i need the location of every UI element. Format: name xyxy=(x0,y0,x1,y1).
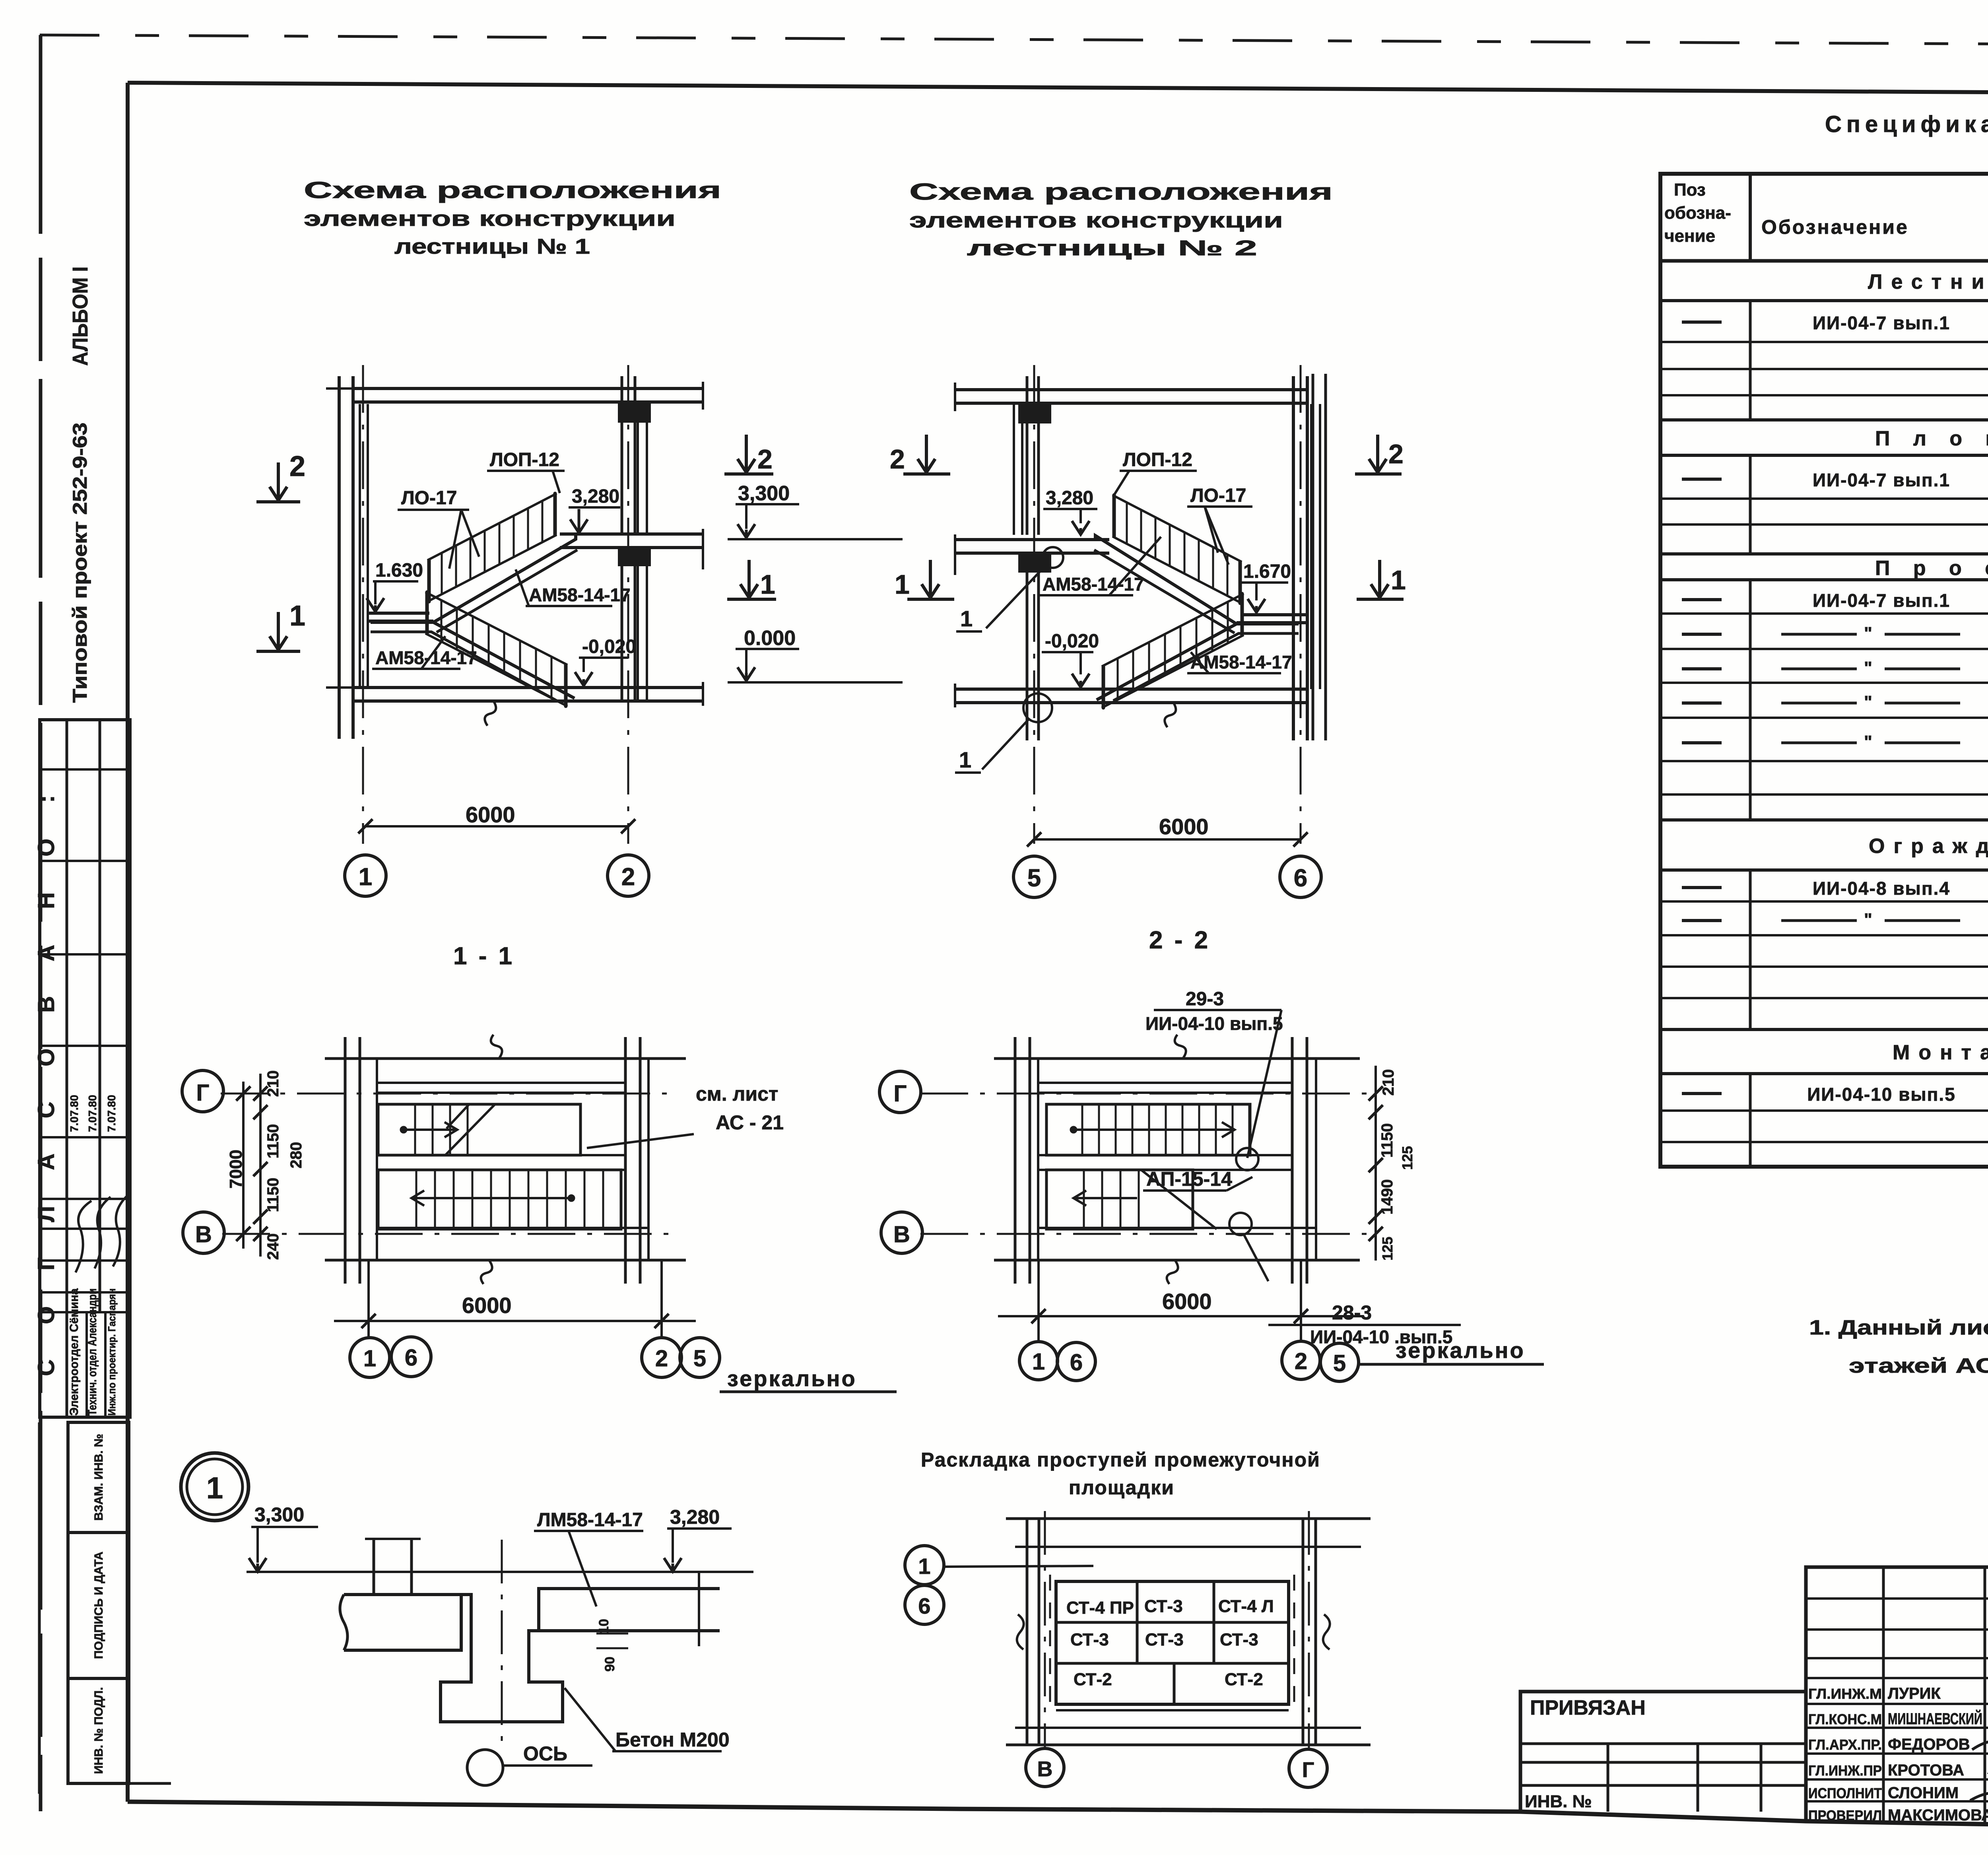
svg-text:Ограждения лестниц: Ограждения лестниц xyxy=(1869,835,1988,858)
axis circle 2 plan1 xyxy=(642,1338,681,1377)
section 2-2 bottom floor slab xyxy=(955,688,1307,691)
svg-text:90: 90 xyxy=(602,1657,617,1672)
axis circle V plan2 xyxy=(881,1212,922,1253)
svg-text:В: В xyxy=(893,1222,910,1247)
svg-text:обозна-: обозна- xyxy=(1664,203,1731,223)
svg-text:1: 1 xyxy=(1391,565,1406,595)
plan 1 axis G line xyxy=(221,1093,676,1095)
svg-text:7.07.80: 7.07.80 xyxy=(86,1095,99,1132)
axis circle G plan2 xyxy=(879,1071,921,1113)
spec band montazhnye detali xyxy=(1660,1028,1988,1031)
section 1-1 top beam xyxy=(619,403,650,422)
svg-text:ИИ-04-10 вып.5: ИИ-04-10 вып.5 xyxy=(1145,1013,1283,1034)
plan 2 right dim chain xyxy=(1375,1066,1377,1261)
svg-text:Спецификация элементов: Спецификация элементов xyxy=(1825,111,1988,137)
svg-text:КРОТОВА: КРОТОВА xyxy=(1888,1762,1964,1779)
svg-text:чение: чение xyxy=(1664,226,1715,246)
plan 1 outline top xyxy=(325,1057,686,1060)
svg-text:АС - 21: АС - 21 xyxy=(716,1111,784,1134)
svg-text:СТ-3: СТ-3 xyxy=(1144,1597,1183,1616)
sidebar box VZAM INV No xyxy=(68,1422,129,1533)
plan 2 right wall xyxy=(1291,1037,1294,1284)
plan 1 lower flight xyxy=(378,1170,621,1229)
svg-text:7.07.80: 7.07.80 xyxy=(68,1095,80,1132)
svg-text:АМ58-14-17: АМ58-14-17 xyxy=(375,647,477,668)
plan 2 outline bottom xyxy=(994,1259,1360,1262)
svg-text:ЛОП-12: ЛОП-12 xyxy=(1123,449,1192,470)
spec band lestnichnye marshi xyxy=(1660,259,1988,262)
section 2-2 left wall xyxy=(1026,376,1029,535)
plan 1 outline bottom xyxy=(325,1259,686,1262)
svg-text:1150: 1150 xyxy=(264,1178,282,1212)
svg-text:240: 240 xyxy=(264,1233,282,1260)
svg-text:ВЗАМ. ИНВ. №: ВЗАМ. ИНВ. № xyxy=(92,1434,105,1521)
detail centre console xyxy=(441,1595,563,1722)
svg-text:2: 2 xyxy=(621,863,635,891)
svg-text:ЛОП-12: ЛОП-12 xyxy=(490,449,559,470)
detail right slab march end xyxy=(539,1589,720,1631)
svg-text:-0,020: -0,020 xyxy=(582,636,636,657)
svg-text:1.630: 1.630 xyxy=(375,560,423,581)
plan 1 left dim chain xyxy=(259,1074,262,1257)
svg-text:": " xyxy=(1864,910,1872,929)
plan 2 mid strip xyxy=(1038,1154,1292,1156)
svg-text:ИНВ. № ПОДЛ.: ИНВ. № ПОДЛ. xyxy=(92,1687,105,1774)
detail flag leader 1 lower xyxy=(982,719,1029,769)
svg-text:29-3: 29-3 xyxy=(1186,989,1224,1010)
outer left trim line xyxy=(39,35,43,1811)
leader 28-3 to lower circle xyxy=(1244,1234,1268,1281)
svg-text:ГЛ.АРХ.ПР.: ГЛ.АРХ.ПР. xyxy=(1808,1737,1882,1753)
svg-text:Схема расположения: Схема расположения xyxy=(304,177,721,203)
drawing frame border xyxy=(128,83,1988,95)
svg-text:3,300: 3,300 xyxy=(254,1503,304,1526)
svg-text:ИНВ. №: ИНВ. № xyxy=(1525,1792,1592,1811)
svg-text:1: 1 xyxy=(895,569,910,600)
section 1-1 bottom floor slab xyxy=(353,686,703,689)
section 1-1 top floor slab xyxy=(353,387,703,390)
svg-text:В: В xyxy=(195,1222,212,1247)
detail level line 3.300 xyxy=(247,1571,753,1573)
signature block grid xyxy=(1806,1567,1988,1826)
svg-text:Инж.по проектир. Гаспарян: Инж.по проектир. Гаспарян xyxy=(106,1288,118,1416)
svg-text:Типовой проект 252-9-63: Типовой проект 252-9-63 xyxy=(69,423,91,703)
svg-text:0.000: 0.000 xyxy=(744,627,796,650)
svg-text:П р о с т у п и: П р о с т у п и xyxy=(1875,557,1988,580)
plan 2 axis V line xyxy=(920,1233,1368,1235)
svg-text:3,280: 3,280 xyxy=(670,1506,720,1528)
section 1-1 mid landing slab 3.280 xyxy=(560,532,703,536)
svg-text:1.670: 1.670 xyxy=(1243,561,1291,582)
section 1-1 axis line 1 xyxy=(362,365,364,844)
raskladka right wall xyxy=(1302,1519,1305,1745)
svg-text:Раскладка проступей промежуточ: Раскладка проступей промежуточной xyxy=(921,1449,1320,1471)
svg-text:": " xyxy=(1864,732,1872,752)
raskladka axis V xyxy=(1044,1511,1046,1748)
plan 1 upper flight xyxy=(378,1104,580,1155)
svg-text:2: 2 xyxy=(1388,439,1404,469)
svg-text:площадки: площадки xyxy=(1069,1476,1175,1499)
sidebar signature scribbles xyxy=(76,1201,91,1272)
spec band prostupi xyxy=(1660,552,1988,556)
svg-text:СТ-3: СТ-3 xyxy=(1220,1630,1258,1649)
svg-text:ПРИВЯЗАН: ПРИВЯЗАН xyxy=(1530,1696,1646,1719)
svg-text:П л о щ а д к и: П л о щ а д к и xyxy=(1875,427,1988,450)
plan 2 axis stems xyxy=(1037,1260,1040,1342)
detail circle 1 double xyxy=(181,1453,248,1521)
svg-text:Г: Г xyxy=(196,1080,210,1106)
section 2-2 intermediate landing 1.670 xyxy=(1241,613,1307,616)
plan 2 lower flight xyxy=(1046,1170,1193,1229)
raskladka axis G xyxy=(1308,1511,1310,1749)
svg-text:6000: 6000 xyxy=(466,802,515,827)
plan 2 upper flight xyxy=(1046,1104,1250,1155)
svg-text:ПРОВЕРИЛ: ПРОВЕРИЛ xyxy=(1808,1807,1882,1824)
detail flag circle upper xyxy=(1043,547,1063,568)
svg-text:": " xyxy=(1864,692,1872,712)
svg-text:10: 10 xyxy=(596,1619,612,1634)
svg-text:210: 210 xyxy=(1380,1069,1397,1096)
axis circle 1 plan1 xyxy=(350,1338,390,1377)
section 2-2 lower flight stringer xyxy=(1097,624,1299,700)
elevation mark 1 right of s2 xyxy=(1378,560,1381,598)
axis circle 5 plan1 xyxy=(680,1338,720,1377)
plan 2 outline top xyxy=(994,1057,1360,1060)
section 1-1 left wall xyxy=(338,376,341,739)
svg-text:1: 1 xyxy=(363,1346,376,1371)
svg-text:СОГЛАСОВАНО:: СОГЛАСОВАНО: xyxy=(33,759,59,1376)
axis circle 2 plan2 xyxy=(1282,1341,1320,1379)
svg-text:ФЕДОРОВ: ФЕДОРОВ xyxy=(1888,1736,1970,1753)
svg-text:210: 210 xyxy=(264,1070,282,1097)
section 2-2 upper flight railing xyxy=(1112,495,1242,562)
axis circle 5 xyxy=(1013,856,1055,897)
section 1-1 axis line 2 xyxy=(627,365,629,844)
plan 2 top landing beam xyxy=(1038,1082,1292,1084)
axis circle 6 xyxy=(1280,856,1321,897)
svg-text:1: 1 xyxy=(960,606,973,631)
svg-text:СТ-4 Л: СТ-4 Л xyxy=(1218,1597,1274,1616)
svg-text:ОСЬ: ОСЬ xyxy=(523,1742,567,1765)
svg-text:АМ58-14-17: АМ58-14-17 xyxy=(1043,574,1144,594)
plan 1 left wall xyxy=(344,1037,347,1284)
raskladka inner dashed edges xyxy=(1049,1575,1051,1710)
axis circle 5 plan2 xyxy=(1320,1343,1359,1381)
svg-text:зеркально: зеркально xyxy=(1396,1338,1525,1363)
raskladka top lines xyxy=(1006,1517,1371,1520)
svg-text:В: В xyxy=(1037,1757,1053,1781)
svg-text:6: 6 xyxy=(1070,1350,1083,1375)
svg-text:АЛЬБОМ I: АЛЬБОМ I xyxy=(68,266,92,366)
svg-text:элементов конструкции: элементов конструкции xyxy=(304,207,676,231)
spec row LM58-14-17 xyxy=(1749,301,1752,420)
sidebar box PODPIS I DATA xyxy=(68,1533,129,1678)
svg-text:СТ-3: СТ-3 xyxy=(1070,1630,1109,1649)
section 1-1 intermediate landing 1.630 xyxy=(368,612,429,615)
svg-text:1: 1 xyxy=(959,747,971,772)
plan 1 axis V line xyxy=(222,1233,676,1235)
svg-text:Монтажные детали: Монтажные детали xyxy=(1893,1041,1988,1064)
plan 2 dim 6000 xyxy=(998,1315,1364,1317)
axis circle 1 plan2 xyxy=(1019,1342,1058,1380)
svg-text:ПОДПИСЬ И ДАТА: ПОДПИСЬ И ДАТА xyxy=(92,1552,105,1659)
svg-text:СТ-2: СТ-2 xyxy=(1225,1670,1263,1689)
section 1-1 right wall xyxy=(621,376,623,535)
section 2-2 break mark bottom xyxy=(1165,702,1176,727)
spec rows LO-17 LOP-12 xyxy=(1749,870,1752,1029)
spec table outer border xyxy=(1660,174,1988,1167)
section 2-2 right wall xyxy=(1292,376,1295,740)
spec row LP-15-14 xyxy=(1749,455,1752,554)
spec row MMD-28 xyxy=(1749,1074,1752,1167)
elevation mark 2 left of s2 xyxy=(925,435,928,472)
svg-text:1150: 1150 xyxy=(1378,1123,1396,1158)
svg-text:АМ58-14-17: АМ58-14-17 xyxy=(529,585,631,605)
svg-text:см. лист: см. лист xyxy=(696,1083,778,1105)
svg-text:элементов конструкции: элементов конструкции xyxy=(909,208,1283,232)
svg-text:ИСПОЛНИТ: ИСПОЛНИТ xyxy=(1808,1785,1882,1801)
svg-text:": " xyxy=(1864,624,1872,643)
svg-text:ГЛ.ИНЖ.ПР: ГЛ.ИНЖ.ПР xyxy=(1808,1762,1882,1779)
svg-text:3,280: 3,280 xyxy=(572,486,619,507)
svg-text:ЛУРИК: ЛУРИК xyxy=(1888,1685,1941,1702)
svg-text:Технич. отдел Александри: Технич. отдел Александри xyxy=(86,1288,99,1416)
svg-text:2: 2 xyxy=(655,1346,668,1371)
svg-text:6: 6 xyxy=(918,1593,930,1618)
section 1-1 lower flight railing xyxy=(425,592,567,665)
axis circle V plan1 xyxy=(183,1212,224,1253)
elevation mark 2 right of s2 xyxy=(1376,435,1379,472)
elevation mark 2 mid with level 3.300 xyxy=(745,435,748,472)
svg-text:ГЛ.ИНЖ.М: ГЛ.ИНЖ.М xyxy=(1808,1686,1882,1702)
spec table header xyxy=(1749,174,1752,261)
svg-text:2: 2 xyxy=(890,444,905,474)
privyazan block xyxy=(1520,1692,1806,1812)
svg-text:1: 1 xyxy=(1032,1349,1045,1375)
svg-text:1: 1 xyxy=(206,1471,223,1505)
svg-text:6000: 6000 xyxy=(1159,814,1209,839)
svg-text:1: 1 xyxy=(918,1554,930,1579)
svg-text:6: 6 xyxy=(405,1345,417,1371)
spec band ploshchadki xyxy=(1660,418,1988,422)
svg-text:зеркально: зеркально xyxy=(727,1366,857,1391)
plan 1 top landing beam xyxy=(377,1082,625,1084)
svg-text:Г: Г xyxy=(1302,1758,1314,1782)
svg-text:АП-15-14: АП-15-14 xyxy=(1146,1168,1232,1190)
svg-text:ИИ-04-10 вып.5: ИИ-04-10 вып.5 xyxy=(1807,1084,1956,1105)
svg-text:лестницы № 1: лестницы № 1 xyxy=(394,235,590,258)
raskladka tread grid xyxy=(1056,1581,1289,1704)
svg-text:2: 2 xyxy=(289,451,305,482)
detail axis centerline xyxy=(501,1540,503,1749)
axis circle 2 xyxy=(608,855,649,896)
svg-text:5: 5 xyxy=(693,1346,706,1371)
svg-text:ГЛ.КОНС.М: ГЛ.КОНС.М xyxy=(1808,1711,1882,1727)
svg-text:СТ-4 ПР: СТ-4 ПР xyxy=(1066,1598,1134,1618)
axis circle G plan1 xyxy=(182,1070,223,1112)
svg-text:": " xyxy=(1864,658,1872,678)
svg-text:этажей АС-10; АС-11: этажей АС-10; АС-11 xyxy=(1849,1354,1988,1377)
svg-text:2: 2 xyxy=(1295,1348,1307,1374)
detail flag leader 1 upper xyxy=(986,565,1046,628)
svg-text:28-3: 28-3 xyxy=(1332,1301,1372,1324)
raskladka left wall xyxy=(1026,1519,1029,1745)
svg-text:2 - 2: 2 - 2 xyxy=(1149,927,1210,954)
elevation mark 1 mid with level 0.000 xyxy=(747,560,751,598)
section 2-2 axis 5 xyxy=(1033,365,1035,844)
plan 2 bottom beam xyxy=(1038,1227,1316,1229)
spec rows ST xyxy=(1749,580,1752,820)
svg-text:1 - 1: 1 - 1 xyxy=(453,942,514,970)
svg-text:СТ-3: СТ-3 xyxy=(1145,1630,1184,1649)
svg-text:1150: 1150 xyxy=(264,1124,282,1159)
detail left slab xyxy=(344,1595,461,1650)
svg-text:ЛО-17: ЛО-17 xyxy=(1190,485,1246,506)
section 2-2 top floor slab xyxy=(955,388,1307,391)
svg-text:ИИ-04-7 вып.1: ИИ-04-7 вып.1 xyxy=(1813,313,1950,333)
svg-text:6: 6 xyxy=(1294,864,1307,892)
svg-text:Обозначение: Обозначение xyxy=(1761,216,1909,238)
svg-text:Электроотдел Сёмина: Электроотдел Сёмина xyxy=(68,1288,81,1416)
detail wall stub above xyxy=(373,1539,375,1595)
svg-text:1490: 1490 xyxy=(1378,1179,1396,1215)
section 2-2 upper flight stringer xyxy=(1095,536,1237,624)
plan 1 bottom beam xyxy=(378,1227,648,1229)
section 2-2 dimension 6000 xyxy=(1034,838,1301,841)
sidebar box INV No PODL xyxy=(68,1678,129,1783)
sidebar left rule xyxy=(38,1422,41,1794)
svg-text:ИИ-04-7 вып.1: ИИ-04-7 вып.1 xyxy=(1813,590,1950,611)
section 2-2 top beam xyxy=(1019,404,1050,422)
svg-text:3,300: 3,300 xyxy=(738,482,790,505)
elevation mark 1 left of s2 xyxy=(929,560,932,598)
detail flag circle lower xyxy=(1023,693,1052,722)
plan 1 right wall xyxy=(624,1037,627,1284)
svg-text:СЛОНИМ: СЛОНИМ xyxy=(1888,1784,1959,1802)
svg-text:Поз: Поз xyxy=(1674,180,1706,200)
svg-text:ЛМ58-14-17: ЛМ58-14-17 xyxy=(537,1509,643,1531)
section 2-2 right outer pilaster xyxy=(1312,374,1314,740)
svg-text:1: 1 xyxy=(760,569,775,600)
svg-text:ИИ-04-8 вып.4: ИИ-04-8 вып.4 xyxy=(1813,878,1950,899)
plan 1 mid strip xyxy=(378,1154,625,1156)
svg-text:МАКСИМОВА: МАКСИМОВА xyxy=(1888,1806,1988,1824)
section 1-1 dimension 6000 xyxy=(365,825,629,827)
section 1-1 upper flight stringer xyxy=(433,534,576,622)
svg-text:7.07.80: 7.07.80 xyxy=(105,1095,118,1132)
svg-text:5: 5 xyxy=(1333,1350,1346,1376)
svg-text:2: 2 xyxy=(757,444,773,474)
section 1-1 upper flight railing xyxy=(427,493,557,560)
svg-text:125: 125 xyxy=(1379,1237,1396,1261)
elevation mark 2 left xyxy=(277,462,280,500)
svg-text:1: 1 xyxy=(359,863,372,891)
svg-text:СТ-2: СТ-2 xyxy=(1074,1670,1112,1689)
callout circle upper plan2 xyxy=(1236,1148,1258,1170)
soglasovano stamp table xyxy=(40,720,130,1417)
plan 2 left wall xyxy=(1014,1037,1017,1284)
plan 1 dim 6000 xyxy=(334,1320,696,1322)
callout circle lower plan2 xyxy=(1229,1213,1252,1235)
plan 2 axis G line xyxy=(920,1093,1368,1095)
svg-text:1. Данный лист см. совмес: 1. Данный лист см. совместно с планами xyxy=(1809,1316,1988,1339)
raskladka bottom lines xyxy=(1056,1709,1289,1711)
axis circle 6 plan1 xyxy=(391,1337,431,1377)
svg-text:МИШНАЕВСКИЙ: МИШНАЕВСКИЙ xyxy=(1888,1709,1982,1728)
section 2-2 lower flight railing xyxy=(1102,594,1244,666)
section 1-1 break mark bottom xyxy=(485,700,496,726)
page outer dashed trim line xyxy=(40,35,1988,47)
svg-text:6000: 6000 xyxy=(462,1293,512,1318)
spec band ograzhdeniya lestnits xyxy=(1660,818,1988,822)
svg-text:Лестничные марши: Лестничные марши xyxy=(1868,270,1988,293)
svg-text:1: 1 xyxy=(289,600,305,632)
svg-text:лестницы № 2: лестницы № 2 xyxy=(967,236,1257,260)
section 1-1 lower flight stringer xyxy=(371,622,575,698)
svg-text:7000: 7000 xyxy=(226,1150,246,1189)
svg-text:-0,020: -0,020 xyxy=(1045,631,1099,652)
section 2-2 mid landing slab 3.280 xyxy=(955,538,1109,541)
svg-text:3,280: 3,280 xyxy=(1046,488,1093,509)
svg-text:125: 125 xyxy=(1399,1146,1415,1170)
svg-text:Г: Г xyxy=(894,1081,907,1107)
svg-text:5: 5 xyxy=(1027,864,1041,892)
svg-text:Бетон М200: Бетон М200 xyxy=(615,1729,730,1751)
svg-text:6000: 6000 xyxy=(1162,1289,1212,1314)
svg-text:Схема расположения: Схема расположения xyxy=(909,179,1333,205)
svg-text:280: 280 xyxy=(287,1142,305,1169)
section 2-2 axis 6 xyxy=(1300,365,1302,844)
axis circle 1 xyxy=(345,855,386,896)
raskladka axis circles 1 6 xyxy=(905,1546,944,1585)
plan 1 axis stems xyxy=(367,1260,370,1338)
svg-text:ЛО-17: ЛО-17 xyxy=(401,488,457,509)
svg-text:ИИ-04-7 вып.1: ИИ-04-7 вып.1 xyxy=(1813,470,1950,490)
elevation mark 1 left xyxy=(277,612,280,650)
axis circle 6 plan2 xyxy=(1057,1342,1095,1381)
